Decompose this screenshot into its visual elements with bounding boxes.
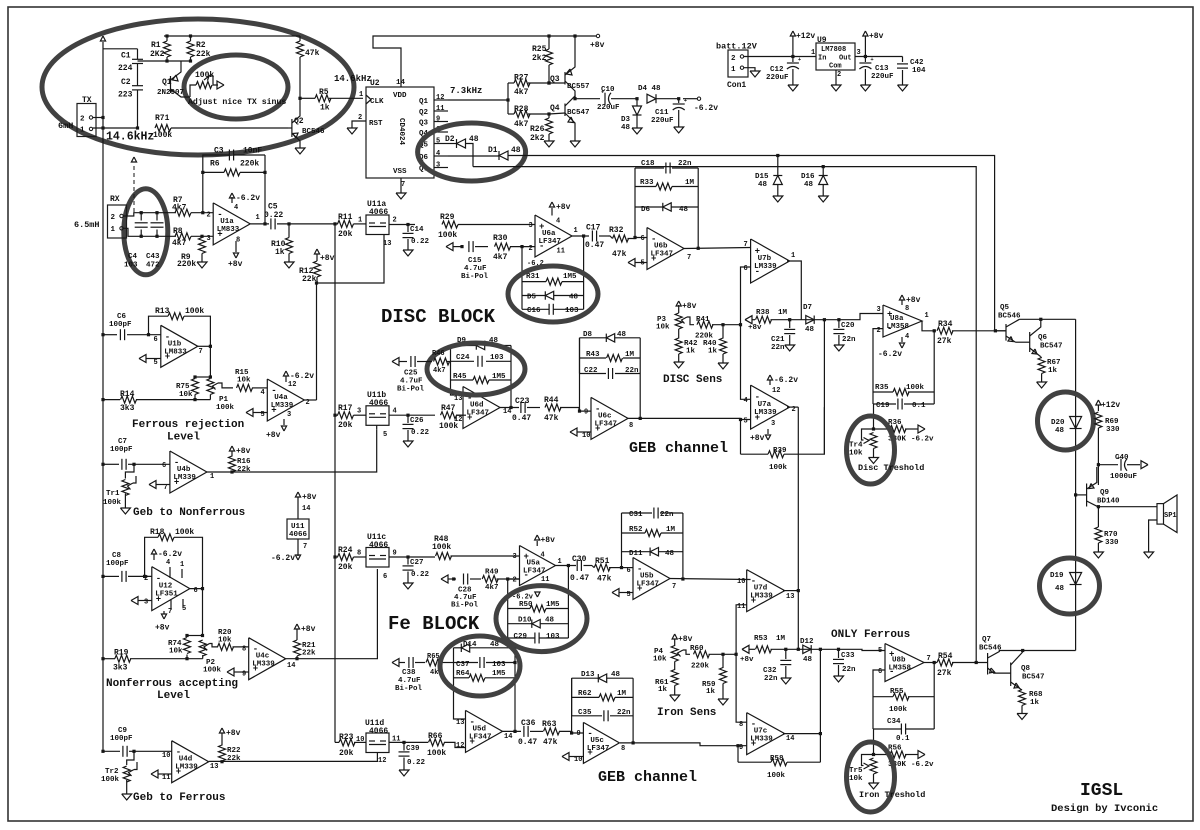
svg-text:C34: C34 bbox=[887, 718, 901, 726]
wire D12 node bbox=[819, 648, 822, 651]
svg-text:C18: C18 bbox=[641, 160, 655, 168]
svg-text:1k: 1k bbox=[275, 248, 285, 257]
svg-text:Q8: Q8 bbox=[1021, 665, 1031, 673]
svg-text:12: 12 bbox=[288, 381, 296, 389]
wire speaker to ground bbox=[1149, 520, 1157, 552]
svg-text:47k: 47k bbox=[612, 250, 627, 259]
svg-text:20k: 20k bbox=[338, 563, 353, 572]
ellipse C4 C43 section bbox=[124, 189, 168, 275]
svg-text:14: 14 bbox=[287, 662, 295, 670]
trimmer P4 10k bbox=[672, 634, 677, 639]
svg-text:6: 6 bbox=[641, 235, 645, 243]
wire U2 pin14 VDD to +8v rail bbox=[373, 36, 596, 87]
wire x820 vertical bbox=[819, 649, 821, 762]
wire RST ground bbox=[352, 121, 366, 128]
svg-text:14.6kHz: 14.6kHz bbox=[334, 74, 372, 84]
svg-text:48: 48 bbox=[545, 617, 555, 625]
svg-text:R18: R18 bbox=[150, 528, 165, 537]
svg-text:0.47: 0.47 bbox=[518, 738, 537, 747]
wire Q9 collector to speaker bbox=[1098, 506, 1157, 508]
wire U7d out down to D12 node bbox=[783, 590, 798, 592]
svg-text:4: 4 bbox=[393, 408, 397, 416]
comparator U7b LM339 bbox=[751, 239, 790, 283]
resistor R70 330 bbox=[1097, 505, 1100, 508]
svg-text:3: 3 bbox=[357, 408, 361, 416]
wire signal rail x335 down bbox=[333, 222, 336, 225]
svg-text:3: 3 bbox=[877, 306, 881, 314]
op-amp U5c LF347 bbox=[583, 722, 619, 763]
wire RX pin2 to cap rail bbox=[123, 213, 176, 216]
svg-text:IGSL: IGSL bbox=[1080, 781, 1123, 801]
comparator U4b LM339 bbox=[170, 451, 207, 493]
svg-text:C27: C27 bbox=[410, 559, 424, 567]
wire U9 out bbox=[855, 56, 903, 58]
svg-text:14.6kHz: 14.6kHz bbox=[106, 131, 154, 144]
svg-text:R11: R11 bbox=[338, 213, 353, 222]
wire +8v rail Q3 bbox=[573, 34, 576, 37]
svg-text:11: 11 bbox=[541, 576, 549, 584]
svg-text:22k: 22k bbox=[227, 755, 241, 763]
svg-text:3: 3 bbox=[513, 553, 517, 561]
wire left rail bbox=[102, 42, 104, 751]
svg-text:2K2: 2K2 bbox=[150, 50, 165, 59]
svg-text:0.22: 0.22 bbox=[411, 238, 430, 246]
svg-text:11: 11 bbox=[162, 774, 170, 782]
svg-text:100k: 100k bbox=[769, 464, 788, 472]
resistor R74 10k bbox=[187, 635, 203, 637]
input arrow U12 pin3 bbox=[131, 597, 138, 605]
svg-text:U7c: U7c bbox=[754, 728, 768, 736]
svg-text:U5d: U5d bbox=[473, 725, 487, 733]
svg-text:+8v: +8v bbox=[556, 203, 571, 212]
connector TX bbox=[77, 104, 96, 137]
svg-text:U7a: U7a bbox=[758, 401, 772, 409]
svg-text:DISC Sens: DISC Sens bbox=[663, 374, 722, 386]
svg-text:330: 330 bbox=[1105, 539, 1119, 547]
svg-text:0.1: 0.1 bbox=[912, 402, 926, 410]
svg-text:1M: 1M bbox=[625, 351, 635, 359]
svg-text:0.47: 0.47 bbox=[585, 241, 604, 250]
trimmer Tr2 100k bbox=[132, 750, 135, 753]
op-amp U1b LM833 bbox=[161, 325, 198, 367]
svg-text:1: 1 bbox=[791, 252, 795, 260]
svg-text:22n: 22n bbox=[660, 511, 674, 519]
op-amp U6b LF347 bbox=[647, 228, 684, 270]
svg-text:Tr5: Tr5 bbox=[849, 767, 863, 775]
svg-text:4k7: 4k7 bbox=[514, 88, 529, 97]
svg-text:R56: R56 bbox=[888, 745, 902, 753]
op-amp U6d LF347 bbox=[463, 387, 500, 429]
resistor R42 1k bbox=[678, 329, 680, 339]
input arrow R38 bbox=[745, 316, 752, 324]
feedback box C31 R52 D11 bbox=[621, 513, 623, 568]
svg-text:1: 1 bbox=[359, 91, 363, 99]
svg-text:47k: 47k bbox=[305, 49, 320, 58]
svg-text:C11: C11 bbox=[655, 109, 669, 117]
svg-text:U6d: U6d bbox=[470, 402, 484, 410]
resistor R68 1k bbox=[1019, 690, 1026, 706]
svg-text:C38: C38 bbox=[402, 669, 416, 677]
input arrow U6c pin10 bbox=[570, 428, 577, 436]
capacitor C4 103 bbox=[140, 211, 143, 214]
svg-text:LM339: LM339 bbox=[252, 661, 275, 669]
svg-text:330: 330 bbox=[1106, 426, 1120, 434]
svg-text:4.7uF: 4.7uF bbox=[398, 677, 421, 685]
svg-text:DISC BLOCK: DISC BLOCK bbox=[381, 306, 496, 328]
op-amp U5b LF347 bbox=[633, 558, 670, 600]
svg-text:2: 2 bbox=[80, 116, 85, 124]
feedback box R31 D5 C16 bbox=[521, 247, 523, 310]
resistor R69 330 bbox=[1095, 412, 1102, 428]
svg-text:4: 4 bbox=[905, 333, 909, 341]
svg-text:7: 7 bbox=[744, 241, 748, 249]
svg-text:3: 3 bbox=[144, 599, 148, 607]
svg-text:LF347: LF347 bbox=[539, 238, 562, 246]
capacitor C33 22n bbox=[837, 648, 840, 651]
input arrow U4a pin5 bbox=[246, 409, 253, 417]
wire Tr4 ground bbox=[873, 449, 875, 458]
svg-text:48: 48 bbox=[611, 671, 621, 679]
svg-text:1: 1 bbox=[256, 214, 260, 222]
svg-text:48: 48 bbox=[679, 206, 689, 214]
svg-text:R2: R2 bbox=[196, 41, 206, 50]
wire Q3 Q4 output bbox=[573, 97, 576, 100]
svg-text:U7d: U7d bbox=[754, 585, 768, 593]
svg-text:100k: 100k bbox=[101, 776, 120, 784]
diode D16 bbox=[822, 165, 825, 168]
capacitor C6 100pF bbox=[101, 333, 104, 336]
svg-text:BC546: BC546 bbox=[998, 313, 1021, 321]
svg-text:2k2: 2k2 bbox=[530, 134, 545, 143]
svg-text:100k: 100k bbox=[889, 706, 908, 714]
svg-text:47k: 47k bbox=[543, 738, 558, 747]
svg-text:U11: U11 bbox=[291, 523, 305, 531]
svg-text:22k: 22k bbox=[302, 650, 316, 658]
power +8v U7a below bbox=[767, 429, 769, 434]
resistor R39 100k feedback bbox=[740, 420, 742, 455]
svg-text:R63: R63 bbox=[542, 720, 557, 729]
svg-text:48: 48 bbox=[617, 331, 627, 339]
svg-text:In: In bbox=[818, 55, 826, 63]
svg-text:103: 103 bbox=[565, 307, 579, 315]
ellipse D19 bbox=[1040, 558, 1100, 614]
svg-text:4.7uF: 4.7uF bbox=[400, 378, 423, 386]
svg-text:D16: D16 bbox=[801, 173, 815, 181]
svg-text:LF347: LF347 bbox=[467, 410, 490, 418]
wire D7 node bbox=[823, 318, 826, 321]
svg-text:0.22: 0.22 bbox=[411, 429, 430, 437]
svg-text:R33: R33 bbox=[640, 179, 654, 187]
svg-text:220k: 220k bbox=[240, 160, 259, 169]
svg-text:+8v: +8v bbox=[302, 493, 317, 502]
trimmer Tr5 10k bbox=[873, 729, 875, 755]
svg-text:6: 6 bbox=[154, 336, 158, 344]
wire osc mid rail bbox=[137, 60, 139, 62]
svg-text:R47: R47 bbox=[441, 404, 456, 413]
power +8v U9 bbox=[863, 31, 868, 36]
svg-text:4k7: 4k7 bbox=[514, 120, 529, 129]
wire U2 VSS down bbox=[400, 178, 402, 193]
svg-text:48: 48 bbox=[569, 294, 579, 302]
svg-text:R54: R54 bbox=[938, 652, 953, 661]
svg-text:D12: D12 bbox=[800, 638, 814, 646]
svg-text:D20: D20 bbox=[1051, 419, 1065, 427]
svg-text:LF347: LF347 bbox=[469, 733, 492, 741]
svg-text:R46: R46 bbox=[432, 350, 445, 358]
svg-text:4k7: 4k7 bbox=[493, 253, 508, 262]
svg-text:0.47: 0.47 bbox=[570, 574, 589, 583]
svg-text:U12: U12 bbox=[159, 583, 173, 591]
comparator U4d LM339 bbox=[172, 741, 209, 783]
svg-text:4: 4 bbox=[541, 552, 545, 560]
resistor R14 3k3 bbox=[101, 398, 104, 401]
power -6.2v U1a bbox=[231, 197, 233, 203]
capacitor C27 0.22 bbox=[406, 555, 409, 558]
svg-text:4: 4 bbox=[436, 150, 440, 158]
svg-text:-6.2v: -6.2v bbox=[774, 376, 798, 385]
svg-text:220uF: 220uF bbox=[871, 73, 894, 81]
trimmer Tr4 10k bbox=[873, 404, 875, 429]
svg-text:Q9: Q9 bbox=[1100, 489, 1110, 497]
svg-text:CLK: CLK bbox=[370, 98, 384, 106]
svg-text:LM339: LM339 bbox=[750, 593, 773, 601]
wire U11a pin13 control bbox=[317, 235, 385, 284]
svg-text:U1b: U1b bbox=[168, 340, 182, 348]
svg-text:103: 103 bbox=[492, 661, 506, 669]
svg-text:1: 1 bbox=[180, 561, 184, 569]
resistor R21 22k bbox=[294, 624, 299, 629]
capacitor C13 220uF bbox=[864, 55, 867, 58]
svg-text:1: 1 bbox=[574, 227, 578, 235]
svg-text:4: 4 bbox=[234, 204, 238, 212]
resistor R19 3k3 bbox=[101, 657, 104, 660]
resistor R12 22k bbox=[314, 249, 319, 254]
wire Con1 pin1 ground bbox=[744, 68, 755, 71]
svg-text:C23: C23 bbox=[515, 397, 530, 406]
wire U12 out down bbox=[202, 589, 204, 636]
svg-text:+8v: +8v bbox=[228, 260, 243, 269]
svg-text:100k: 100k bbox=[216, 404, 235, 412]
svg-text:5: 5 bbox=[878, 647, 882, 655]
svg-text:U8b: U8b bbox=[892, 657, 906, 665]
svg-text:7: 7 bbox=[672, 583, 676, 591]
svg-text:100k: 100k bbox=[153, 131, 172, 140]
svg-text:R75: R75 bbox=[176, 383, 190, 391]
svg-text:8: 8 bbox=[739, 721, 743, 729]
svg-text:Adjust nice TX sinus: Adjust nice TX sinus bbox=[188, 97, 286, 107]
connector Con1 bbox=[728, 50, 748, 77]
comparator U7c LM339 bbox=[747, 713, 785, 755]
svg-text:48: 48 bbox=[1055, 427, 1065, 435]
op-amp U1a LM833 bbox=[213, 203, 250, 245]
wire U11c out bbox=[389, 556, 435, 558]
svg-text:BC547: BC547 bbox=[1022, 674, 1045, 682]
svg-text:Geb to Ferrous: Geb to Ferrous bbox=[133, 792, 225, 804]
svg-text:R13: R13 bbox=[155, 307, 170, 316]
svg-text:12: 12 bbox=[378, 757, 386, 765]
svg-text:27k: 27k bbox=[937, 669, 952, 678]
svg-text:+8v: +8v bbox=[541, 536, 556, 545]
svg-text:U6b: U6b bbox=[654, 243, 668, 251]
svg-text:4: 4 bbox=[166, 559, 170, 567]
svg-text:TX: TX bbox=[82, 96, 92, 105]
op-amp U12 LF351 bbox=[152, 567, 190, 611]
svg-text:22k: 22k bbox=[237, 466, 251, 474]
svg-text:U4b: U4b bbox=[177, 466, 191, 474]
svg-text:220uF: 220uF bbox=[597, 104, 620, 112]
svg-text:Tr1: Tr1 bbox=[106, 490, 120, 498]
resistor R22 22k bbox=[219, 728, 224, 733]
svg-text:100k: 100k bbox=[767, 772, 786, 780]
svg-text:1k: 1k bbox=[708, 348, 718, 356]
svg-text:R31: R31 bbox=[526, 273, 540, 281]
svg-text:C3: C3 bbox=[214, 147, 224, 156]
svg-text:Out: Out bbox=[839, 55, 852, 63]
svg-text:1M: 1M bbox=[617, 690, 627, 698]
op-amp U8b LM358 bbox=[885, 644, 924, 682]
svg-text:C43: C43 bbox=[146, 253, 160, 261]
svg-text:Level: Level bbox=[167, 432, 200, 444]
svg-text:9: 9 bbox=[577, 730, 581, 738]
svg-text:BD140: BD140 bbox=[1097, 498, 1120, 506]
svg-text:GEB channel: GEB channel bbox=[598, 769, 697, 786]
svg-text:6: 6 bbox=[627, 567, 631, 575]
op-amp U8a LM358 bbox=[883, 305, 922, 337]
svg-text:8: 8 bbox=[621, 745, 625, 753]
svg-text:20k: 20k bbox=[339, 749, 354, 758]
wire U6d out bbox=[500, 407, 519, 409]
comparator U7a LM339 bbox=[751, 385, 790, 429]
svg-text:1: 1 bbox=[111, 226, 116, 234]
svg-text:Ferrous rejection: Ferrous rejection bbox=[132, 419, 244, 431]
capacitor C12 220uF bbox=[791, 55, 794, 58]
svg-text:D8: D8 bbox=[583, 331, 593, 339]
svg-text:100k: 100k bbox=[175, 528, 194, 537]
wire R25 to Q3 base junction bbox=[547, 81, 550, 84]
svg-text:100k: 100k bbox=[432, 543, 451, 552]
resistor R16 22k bbox=[229, 446, 234, 451]
svg-text:220k: 220k bbox=[177, 260, 196, 269]
svg-text:9: 9 bbox=[436, 116, 440, 124]
svg-text:100k: 100k bbox=[427, 749, 446, 758]
svg-text:R55: R55 bbox=[890, 688, 904, 696]
svg-text:8: 8 bbox=[357, 550, 361, 558]
svg-text:U5a: U5a bbox=[527, 560, 541, 568]
svg-text:C19: C19 bbox=[876, 402, 890, 410]
svg-text:+12v: +12v bbox=[796, 32, 815, 41]
svg-text:SP1: SP1 bbox=[1164, 512, 1177, 520]
wire U5b out bbox=[670, 579, 751, 580]
svg-text:48: 48 bbox=[758, 181, 768, 189]
wire TX pin2 to rail bbox=[93, 117, 103, 119]
feedback box D14 C37 R64 bbox=[454, 648, 466, 719]
feedback R55 C34 box bbox=[873, 670, 885, 729]
svg-text:+8v: +8v bbox=[740, 656, 754, 664]
svg-text:Tr4: Tr4 bbox=[849, 442, 863, 450]
svg-text:LF347: LF347 bbox=[587, 745, 610, 753]
svg-text:+8v: +8v bbox=[869, 32, 884, 41]
svg-text:C14: C14 bbox=[410, 226, 424, 234]
svg-text:+8v: +8v bbox=[748, 324, 762, 332]
svg-text:R35: R35 bbox=[875, 384, 889, 392]
svg-text:D5: D5 bbox=[527, 294, 537, 302]
svg-text:LM339: LM339 bbox=[271, 402, 294, 410]
svg-text:1: 1 bbox=[731, 66, 736, 74]
svg-text:10k: 10k bbox=[653, 656, 667, 664]
power +8v U6a bbox=[551, 208, 553, 216]
svg-text:48: 48 bbox=[1055, 585, 1065, 593]
svg-text:LF347: LF347 bbox=[651, 251, 674, 259]
svg-text:-6.2v: -6.2v bbox=[694, 104, 718, 113]
svg-text:R60: R60 bbox=[690, 645, 704, 653]
svg-text:R69: R69 bbox=[1105, 418, 1119, 426]
resistor R67 1k bbox=[1041, 357, 1042, 359]
power +12v R69 bbox=[1096, 400, 1101, 405]
svg-text:R1: R1 bbox=[151, 41, 161, 50]
svg-text:4k7: 4k7 bbox=[485, 584, 499, 592]
svg-text:3: 3 bbox=[857, 49, 861, 57]
svg-text:5: 5 bbox=[154, 359, 158, 367]
svg-text:100k: 100k bbox=[185, 307, 204, 316]
svg-text:2k2: 2k2 bbox=[532, 54, 547, 63]
svg-text:U6a: U6a bbox=[542, 230, 556, 238]
svg-text:3: 3 bbox=[436, 162, 440, 170]
capacitor C25 4.7uF BiPol bbox=[410, 356, 412, 367]
svg-text:Level: Level bbox=[157, 690, 190, 702]
wire U6b out bbox=[684, 248, 751, 249]
svg-text:0.22: 0.22 bbox=[411, 571, 430, 579]
svg-text:1k: 1k bbox=[686, 348, 696, 356]
wire U5d out bbox=[503, 730, 522, 732]
svg-text:-6.2v: -6.2v bbox=[158, 550, 182, 559]
svg-text:2: 2 bbox=[207, 212, 211, 220]
power -6.2v U12 bbox=[151, 549, 156, 554]
svg-text:103: 103 bbox=[124, 262, 138, 270]
wire U9 Com ground bbox=[835, 70, 837, 85]
svg-text:Q1: Q1 bbox=[419, 98, 429, 106]
diode D3 bbox=[635, 97, 638, 100]
wire U8b out bbox=[924, 662, 937, 664]
wire TX pin1 to R71 row bbox=[93, 127, 138, 129]
svg-text:22k: 22k bbox=[196, 50, 211, 59]
svg-text:22k: 22k bbox=[302, 275, 317, 284]
svg-text:Tr2: Tr2 bbox=[105, 768, 119, 776]
svg-text:R71: R71 bbox=[155, 114, 170, 123]
feedback R18 100k bbox=[143, 575, 146, 578]
resistor R40 1k bbox=[722, 325, 724, 339]
svg-text:C16: C16 bbox=[527, 307, 541, 315]
comparator U7d LM339 bbox=[747, 570, 785, 612]
resistor R23 20k bbox=[335, 741, 339, 743]
svg-text:4066: 4066 bbox=[289, 531, 308, 539]
speaker SP1 bbox=[1157, 504, 1164, 524]
resistor R59 1k bbox=[722, 654, 724, 668]
wire U11b pin5 control bbox=[376, 425, 378, 429]
svg-text:+12v: +12v bbox=[1101, 401, 1120, 410]
svg-text:10: 10 bbox=[582, 432, 590, 440]
svg-text:-6.2v: -6.2v bbox=[878, 350, 902, 359]
svg-text:8: 8 bbox=[629, 422, 633, 430]
wire x798 vertical bbox=[797, 407, 799, 649]
feedback box D13 R62 C35 bbox=[571, 678, 573, 733]
svg-text:R68: R68 bbox=[1029, 691, 1043, 699]
svg-text:1: 1 bbox=[210, 473, 214, 481]
svg-text:+8v: +8v bbox=[906, 296, 921, 305]
svg-text:C37: C37 bbox=[456, 661, 470, 669]
svg-text:47k: 47k bbox=[597, 575, 612, 584]
svg-text:Q3: Q3 bbox=[419, 120, 429, 128]
resistor R10 1k bbox=[287, 222, 290, 225]
